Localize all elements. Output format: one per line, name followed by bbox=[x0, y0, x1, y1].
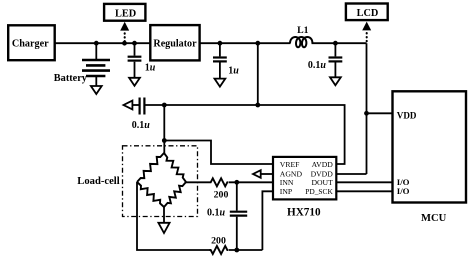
node battery junction bbox=[94, 41, 99, 46]
node capacitor C1 junction bbox=[132, 41, 137, 46]
wire battery drop bbox=[95, 43, 97, 59]
node capacitor C2 junction bbox=[218, 41, 223, 46]
node VDD branch junction bbox=[364, 111, 369, 116]
wire battery to ground bbox=[95, 77, 97, 86]
svg-text:1u: 1u bbox=[145, 62, 156, 73]
wire left vertex down and along bottom bbox=[137, 182, 210, 250]
wire regulator to L1 bbox=[200, 42, 291, 44]
wire VREF branch bbox=[164, 141, 273, 165]
svg-text:Load-cell: Load-cell bbox=[77, 176, 119, 187]
capacitor C2 1u bbox=[219, 43, 221, 56]
ground capacitor C3 bbox=[330, 77, 341, 85]
box Charger bbox=[8, 25, 55, 60]
node capacitor C3 junction bbox=[333, 41, 338, 46]
LCD supply arrow (dotted, pointing up) bbox=[366, 33, 368, 43]
svg-text:200: 200 bbox=[211, 236, 226, 247]
wire to bridge top vertex bbox=[163, 141, 165, 154]
svg-text:AVDD: AVDD bbox=[312, 160, 334, 169]
node rail-drop junction bbox=[255, 41, 260, 46]
node bottom junction bbox=[234, 248, 239, 253]
svg-text:0.1u: 0.1u bbox=[132, 120, 151, 131]
svg-text:VREF: VREF bbox=[280, 160, 300, 169]
svg-text:INP: INP bbox=[280, 187, 292, 196]
box MCU bbox=[393, 91, 467, 202]
wire rail drop to bypass rail bbox=[257, 43, 259, 105]
resistor R1 200 (top) bbox=[210, 178, 229, 186]
svg-text:DOUT: DOUT bbox=[311, 178, 333, 187]
svg-text:0.1u: 0.1u bbox=[308, 60, 327, 71]
svg-text:Charger: Charger bbox=[12, 38, 49, 49]
box LCD bbox=[346, 4, 388, 21]
ground bridge bbox=[158, 223, 169, 233]
svg-text:PD_SCK: PD_SCK bbox=[305, 187, 333, 196]
wire L1 to rail corner bbox=[312, 42, 367, 44]
bridge resistor top-right bbox=[164, 153, 186, 182]
svg-text:AGND: AGND bbox=[280, 169, 303, 178]
bridge resistor bottom-left bbox=[137, 182, 164, 207]
node bridge-top rail junction bbox=[162, 103, 167, 108]
ground capacitor C2 bbox=[215, 79, 226, 87]
svg-text:L1: L1 bbox=[297, 25, 309, 36]
wire R2 to bottom node bbox=[229, 249, 262, 251]
wire VDD branch to MCU bbox=[367, 112, 393, 114]
load-cell dashed box bbox=[123, 146, 198, 217]
svg-text:HX710: HX710 bbox=[287, 206, 321, 218]
box Regulator bbox=[150, 25, 199, 60]
bridge resistor top-left bbox=[137, 153, 164, 182]
svg-text:200: 200 bbox=[214, 189, 229, 200]
svg-text:0.1u: 0.1u bbox=[207, 207, 226, 218]
svg-text:INN: INN bbox=[280, 178, 294, 187]
svg-text:LED: LED bbox=[115, 8, 136, 19]
wire bridge-top drop bbox=[163, 105, 165, 141]
capacitor C3 0.1u bbox=[334, 43, 336, 56]
wire DVDD to rail bbox=[336, 173, 366, 175]
capacitor C4 0.1u (series) bbox=[236, 182, 238, 210]
svg-text:MCU: MCU bbox=[421, 213, 447, 224]
wire charger to regulator bbox=[55, 42, 151, 44]
wire INP riser bbox=[262, 191, 273, 250]
svg-text:1u: 1u bbox=[228, 65, 239, 76]
battery bbox=[82, 60, 110, 76]
node LED junction bbox=[122, 41, 127, 46]
svg-text:DVDD: DVDD bbox=[311, 169, 334, 178]
wire PD_SCK to MCU I/O bbox=[336, 190, 392, 192]
svg-text:I/O: I/O bbox=[397, 186, 410, 196]
svg-text:LCD: LCD bbox=[357, 8, 379, 19]
ground capacitor C1 bbox=[129, 78, 140, 86]
wire R1 to INN bbox=[229, 181, 273, 183]
capacitor C1 1u bbox=[134, 43, 136, 55]
arrow-capacitor 0.1u (open triangle + plates) bbox=[124, 101, 133, 110]
wire bridge right vertex to R1 bbox=[186, 181, 210, 183]
svg-text:Regulator: Regulator bbox=[153, 39, 197, 50]
node VREF branch junction bbox=[162, 138, 167, 143]
svg-text:Battery: Battery bbox=[54, 73, 88, 84]
bypass rail to AVDD bbox=[146, 105, 345, 164]
IC HX710 bbox=[273, 157, 336, 200]
svg-text:VDD: VDD bbox=[397, 110, 417, 120]
wire bridge bottom to ground bbox=[163, 207, 165, 223]
AGND arrow (open triangle) bbox=[253, 170, 261, 178]
LED indicator arrow (dotted, pointing up) bbox=[124, 33, 126, 43]
wire main rail down to DVDD bbox=[366, 43, 368, 174]
resistor R2 200 (bottom) bbox=[210, 246, 229, 254]
inductor L1 bbox=[290, 37, 312, 47]
node bypass rail junction bbox=[255, 103, 260, 108]
ground battery bbox=[91, 86, 102, 94]
node INN junction bbox=[234, 180, 239, 185]
wire DOUT to MCU I/O bbox=[336, 181, 392, 183]
bridge resistor bottom-right bbox=[164, 182, 186, 207]
box LED bbox=[104, 4, 145, 21]
